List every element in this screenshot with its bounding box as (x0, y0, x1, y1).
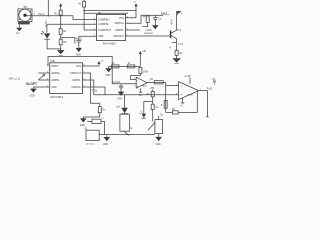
IC2 U2 (50, 63, 83, 94)
wire to node Ka11 (148, 14, 163, 16)
svg-text:IN-OPT: IN-OPT (26, 82, 37, 86)
IC2 pin5 wire (83, 87, 106, 95)
capacitor Ca (153, 15, 158, 25)
LED D1 (41, 31, 51, 39)
ground under Ca (152, 25, 159, 29)
svg-text:GND: GND (103, 144, 108, 146)
op-amp2 V+ stub (189, 78, 191, 84)
feedback bottom wire (166, 111, 173, 113)
IC1 pin7 wire (126, 15, 148, 23)
resistor Ax top (83, 0, 85, 2)
svg-text:1B: 1B (98, 12, 101, 15)
svg-text:CMPOUT: CMPOUT (70, 72, 81, 75)
ground mid bottom (106, 135, 108, 137)
capacitor Cx (76, 40, 81, 48)
wire down to diode (124, 95, 126, 108)
power flag (139, 51, 142, 54)
wire node up to +V (139, 54, 141, 67)
junction tick (172, 42, 177, 44)
op-amp1 output wire (147, 81, 166, 83)
wire (60, 35, 62, 40)
svg-text:+7B: +7B (142, 51, 147, 53)
ground (76, 48, 82, 52)
wire RC chain (109, 65, 141, 67)
svg-text:AMPIN+: AMPIN+ (51, 72, 61, 75)
wire (87, 113, 100, 117)
bus wire from left (48, 57, 136, 84)
resistor 1F3k (139, 67, 142, 73)
mic value strip (18, 22, 30, 25)
IC1 pin8 wire to +V (126, 6, 136, 18)
svg-text:GND: GND (105, 75, 110, 77)
resistor Ax series (112, 65, 120, 68)
long bottom wire (99, 134, 155, 136)
resistor Rx fb (172, 111, 178, 114)
svg-text:VDD: VDD (98, 35, 103, 38)
svg-text:B1: B1 (24, 5, 28, 9)
wire branch to cap (61, 38, 75, 44)
svg-text:+2B: +2B (211, 78, 215, 80)
svg-text:AMPIN-: AMPIN- (115, 29, 124, 32)
antenna wire (176, 15, 178, 30)
output wire (199, 91, 208, 117)
svg-text:+: + (137, 84, 139, 88)
svg-text:AMPIN+: AMPIN+ (115, 22, 125, 25)
svg-text:VDD: VDD (51, 86, 56, 89)
IC1 pin6 wire (126, 29, 140, 31)
svg-text:CMPIN+: CMPIN+ (71, 86, 81, 89)
resistor Ru (175, 50, 178, 55)
ground under mic (16, 25, 22, 35)
svg-text:C1B: C1B (50, 60, 55, 63)
IC2 pin4 wire (44, 86, 50, 88)
resistor Rx output (154, 81, 163, 84)
box B1 buzzer (86, 130, 99, 140)
box T1 (155, 120, 163, 134)
svg-text:4x 44 xx: 4x 44 xx (86, 144, 95, 146)
resistor Rx (59, 29, 62, 35)
svg-text:Cm(C2: Cm(C2 (112, 81, 120, 84)
ground (32, 87, 34, 89)
wire from top edge (47, 0, 49, 16)
IC2 pin7 wire down (83, 73, 100, 107)
svg-text:INPUT: INPUT (51, 65, 59, 68)
wire from IC1 pin4 down (78, 36, 80, 40)
microphone B1 (18, 9, 32, 22)
svg-text:Ka11: Ka11 (161, 11, 168, 15)
wire to LED branch (46, 24, 48, 33)
svg-text:J-13: J-13 (178, 43, 183, 46)
IC2 pin3 wire (38, 79, 49, 81)
resistor 4x series (127, 65, 135, 68)
svg-text:AMPOUT: AMPOUT (113, 35, 124, 38)
wire vertical down to pin3 (83, 7, 85, 30)
svg-text:MAX9B3: MAX9B3 (50, 95, 63, 99)
resistor Ro (151, 91, 154, 96)
top wire 2 (84, 12, 128, 14)
resistor fb1 (164, 100, 167, 108)
svg-text:MOSFET: MOSFET (144, 33, 154, 35)
IC1 pin3 wire left (84, 29, 96, 31)
svg-text:1F3k: 1F3k (143, 71, 149, 74)
svg-text:COMPIN-: COMPIN- (98, 23, 109, 26)
svg-text:+7B: +7B (150, 87, 155, 90)
switch diagonal (124, 131, 126, 132)
svg-text:9A06: 9A06 (142, 85, 148, 88)
resistor Rb (146, 16, 149, 23)
op-amp U3A (136, 77, 147, 88)
resistor R horizontal (87, 120, 92, 122)
long wire to op-amp2 (94, 94, 179, 96)
power symbol right (213, 80, 216, 85)
box Tx transformer (120, 114, 129, 131)
svg-text:J.4B .1x 11: J.4B .1x 11 (8, 78, 20, 81)
svg-text:Txf1: Txf1 (92, 88, 98, 92)
svg-text:Pd xx: Pd xx (38, 12, 45, 16)
svg-text:VSS: VSS (119, 17, 124, 20)
wire to op-amp2 minus (166, 85, 179, 87)
wire to LED (144, 100, 153, 102)
ground (83, 116, 87, 118)
svg-text:COMPIN+: COMPIN+ (98, 18, 110, 21)
svg-text:GND: GND (156, 144, 161, 146)
svg-text:CMPIN-: CMPIN- (72, 79, 81, 82)
op-amp1 V- stub (139, 88, 142, 92)
IC1 U1 (97, 15, 126, 41)
svg-text:C4B: C4B (117, 98, 122, 100)
power +V (134, 3, 137, 6)
svg-text:A906: A906 (188, 93, 194, 96)
ground rail left of RC chain (105, 66, 112, 77)
svg-text:-7B: -7B (138, 95, 142, 97)
svg-text:COMPOUT: COMPOUT (98, 29, 111, 32)
wire mic output (27, 16, 97, 20)
IC2 pin6 wire down to long wire (83, 80, 94, 95)
resistor Ra (59, 39, 62, 45)
switch blade (148, 123, 155, 130)
wire LED bottom (47, 39, 61, 49)
LED D3 (142, 114, 147, 118)
top wire 1 (84, 9, 136, 11)
IC2 pin8 wire to +V (83, 64, 100, 66)
power +V left (59, 3, 62, 10)
IC1 pin5 wire to transistor base (126, 35, 170, 37)
ground (172, 58, 181, 62)
antenna flag (177, 11, 181, 14)
IC1 pin4 wire left to cap (79, 35, 97, 37)
svg-text:4.5.4: 4.5.4 (171, 19, 173, 25)
resistor Rn (98, 107, 101, 113)
ground under C2 (118, 92, 125, 96)
wire (60, 45, 62, 50)
svg-text:IN-OK: IN-OK (45, 20, 48, 27)
ground bottom right (155, 137, 162, 141)
svg-text:GND: GND (146, 30, 151, 32)
svg-text:VSS: VSS (76, 65, 81, 68)
svg-text:AMPIN-: AMPIN- (51, 79, 60, 82)
transistor Q1 (170, 30, 177, 39)
wire (60, 16, 62, 29)
svg-text:Tx1: Tx1 (177, 29, 182, 32)
op-amp U3B (179, 82, 199, 100)
svg-text:CND: CND (30, 95, 35, 97)
resistor Fo (151, 104, 154, 109)
ground (57, 50, 65, 54)
svg-text:-: - (137, 78, 138, 82)
feedback vertical (165, 82, 167, 112)
IC2 pin2 wire (38, 72, 49, 74)
svg-text:Fxf1: Fxf1 (207, 87, 213, 91)
svg-text:MAX9B2: MAX9B2 (103, 41, 116, 45)
capacitor C2 (119, 84, 124, 92)
resistor Ru (59, 10, 62, 15)
diode D2 (121, 108, 127, 114)
svg-text:+: + (180, 93, 182, 97)
emitter wire (176, 39, 178, 51)
op-amp2 V- stub (181, 98, 185, 103)
svg-text:A+1B: A+1B (185, 75, 191, 78)
IC1 pin2 wire left (47, 23, 97, 25)
